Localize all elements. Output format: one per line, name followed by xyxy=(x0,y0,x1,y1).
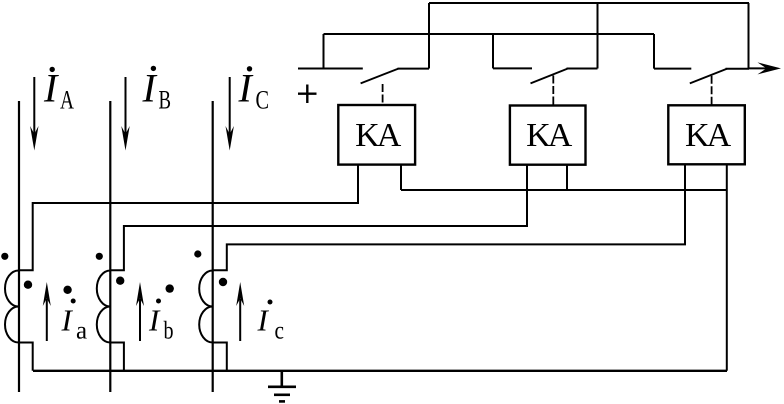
relay KA1 xyxy=(338,105,415,165)
label Ia xyxy=(61,299,88,345)
wire: top output bus xyxy=(429,2,749,4)
svg-text:a: a xyxy=(76,318,87,345)
svg-text:I: I xyxy=(148,303,161,338)
svg-text:I: I xyxy=(257,303,270,338)
CT-a primary polarity dot xyxy=(1,253,8,260)
CT-c secondary winding xyxy=(199,271,213,343)
svg-text:KA: KA xyxy=(526,117,573,154)
svg-text:I: I xyxy=(43,66,59,111)
secondary current arrow Ia xyxy=(43,282,51,341)
phase bus B xyxy=(109,101,111,392)
contact KA2 (relay contact) xyxy=(531,69,598,84)
CT-b current reference dot xyxy=(166,284,174,292)
plus supply terminal xyxy=(298,85,317,104)
wire: KA3 left terminal to CT-c secondary top xyxy=(213,165,685,271)
wire: KA1 left terminal to CT-a secondary top xyxy=(19,165,358,271)
dashed link contact 2 to relay KA2 xyxy=(552,76,554,106)
svg-text:KA: KA xyxy=(685,117,732,154)
label Ic xyxy=(257,300,285,345)
current arrow IB xyxy=(121,77,129,151)
contact KA3 (relay contact) xyxy=(690,69,749,84)
wire: CT-a secondary bottom to neutral bus xyxy=(19,343,33,371)
wire: secondary neutral bus xyxy=(33,370,727,372)
secondary current arrow Ib xyxy=(136,282,144,341)
CT-b primary polarity dot xyxy=(96,253,103,260)
contact KA1 (relay contact) xyxy=(361,69,429,84)
CT-b secondary winding xyxy=(97,271,110,343)
CT-c secondary polarity dot xyxy=(219,278,227,286)
label IA xyxy=(43,66,74,115)
wire: contact 3 output riser xyxy=(748,3,750,69)
svg-text:C: C xyxy=(256,86,270,115)
wire: contact 2 output riser xyxy=(597,3,599,69)
relay KA3 xyxy=(668,105,745,164)
wire: lower distribution bus xyxy=(324,33,655,35)
CT-a secondary polarity dot xyxy=(24,281,32,289)
svg-text:I: I xyxy=(142,66,158,111)
svg-text:I: I xyxy=(238,66,254,111)
CT-a secondary winding xyxy=(5,271,19,343)
CT-b secondary polarity dot xyxy=(116,277,124,285)
wire: KA2 right terminal xyxy=(566,165,568,190)
wire: CT-c secondary bottom to neutral bus xyxy=(213,343,227,371)
label Ib xyxy=(148,299,174,345)
label IB xyxy=(142,66,172,115)
svg-text:I: I xyxy=(61,303,74,338)
wire: riser lower bus to contact 2 fixed terminal xyxy=(493,34,532,68)
secondary current arrow Ic xyxy=(236,282,244,341)
CT-c primary polarity dot xyxy=(194,250,201,257)
ground xyxy=(268,371,296,402)
wire: riser lower bus to contact 3 fixed terminal xyxy=(654,34,691,69)
wire: supply to contact 1 fixed terminal xyxy=(298,68,363,70)
wire: KA1 right terminal xyxy=(400,165,402,190)
wire: CT-b secondary bottom to neutral bus xyxy=(110,343,124,371)
wire: common return of relay coils xyxy=(401,189,727,191)
svg-text:B: B xyxy=(159,86,172,115)
phase bus A xyxy=(18,101,20,392)
wire: riser from supply line to lower bus xyxy=(323,34,325,69)
svg-text:A: A xyxy=(60,86,74,115)
wire: contact 1 output riser xyxy=(428,3,430,69)
svg-text:c: c xyxy=(275,318,285,345)
dashed link contact 3 to relay KA3 xyxy=(711,76,713,105)
current arrow IC xyxy=(226,77,234,151)
svg-text:b: b xyxy=(164,318,174,345)
label IC xyxy=(238,66,270,115)
CT-a current reference dot xyxy=(63,286,71,294)
relay KA2 xyxy=(510,106,586,165)
output arrow to trip circuit xyxy=(749,62,782,74)
wire: KA3 right terminal down to neutral bus xyxy=(726,165,728,371)
phase bus C xyxy=(212,101,214,392)
current arrow IA xyxy=(30,77,38,151)
wire: KA2 left terminal to CT-b secondary top xyxy=(110,165,527,271)
dashed link contact 1 to relay KA1 xyxy=(382,84,384,105)
svg-text:KA: KA xyxy=(355,117,402,154)
